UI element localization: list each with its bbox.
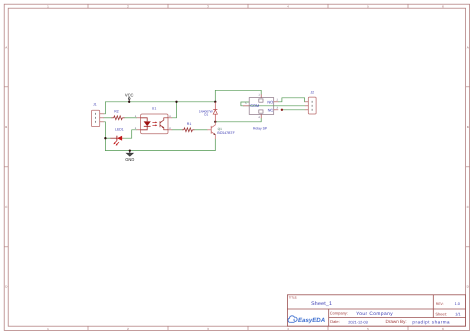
wire R1 to Q1 base [194, 129, 207, 131]
wire U1 pin3 to R1 [172, 129, 182, 131]
connector J1 [92, 103, 104, 127]
diode LED1 [110, 136, 123, 146]
junction relay NC wire end [281, 109, 283, 111]
title block [287, 295, 465, 326]
diode D1 [213, 102, 217, 122]
relay K1 Relay SP [243, 94, 278, 131]
relay pin numbers 1 4 5 2 3 [245, 94, 279, 119]
svg-text:B: B [5, 125, 7, 129]
svg-text:NO: NO [267, 99, 273, 104]
svg-text:2021-12-03: 2021-12-03 [348, 321, 367, 325]
resistor R1 [182, 128, 194, 132]
svg-text:A: A [467, 46, 469, 50]
wire relay NO to J2 pin1 [278, 98, 305, 102]
svg-text:J1: J1 [93, 103, 97, 107]
svg-text:TITLE:: TITLE: [289, 296, 298, 300]
wire VCC rail over top to relay coil pin1 [215, 90, 261, 102]
wire U1 pin4 to VCC rail [172, 102, 176, 118]
wire LED1 anode to U1 pin2 [123, 130, 136, 138]
svg-text:GND: GND [125, 157, 134, 162]
svg-text:Date:: Date: [330, 319, 340, 324]
svg-text:VCC: VCC [125, 93, 134, 98]
ground GND [125, 151, 134, 163]
J2 pins 1 2 3 [305, 102, 308, 110]
U1 pins 1 2 4 3 [137, 118, 173, 130]
svg-text:B: B [467, 125, 469, 129]
J2 pin numbers 1 2 3 [311, 101, 313, 111]
svg-text:Drawn By:: Drawn By: [386, 319, 407, 324]
svg-text:A: A [5, 46, 7, 50]
U1 coupling arrows [152, 122, 157, 127]
svg-text:Company:: Company: [330, 311, 348, 316]
junction LED1 net at J1 pin3 column [104, 137, 106, 139]
EasyEDA logo [288, 316, 325, 324]
svg-text:Your Company: Your Company [356, 311, 393, 317]
wire VCC rail [105, 101, 215, 103]
svg-text:NC: NC [268, 107, 274, 112]
svg-text:1.0: 1.0 [455, 302, 460, 306]
wire relay COM to J2 pin2 [243, 105, 305, 107]
junction VCC flag on VCC rail [128, 101, 130, 103]
resistor R2 [112, 116, 125, 120]
wire J1 pin3 down to LED1 net [104, 122, 106, 151]
svg-text:U1: U1 [152, 106, 157, 110]
U1 pin numbers 1 2 4 3 [135, 115, 171, 130]
wire J1 pin1 to VCC rail [104, 102, 106, 114]
wire relay NC to J2 pin3 [282, 109, 305, 111]
U1 internal LED [141, 118, 148, 130]
svg-text:pradipt sharma: pradipt sharma [412, 320, 450, 325]
junction U1 pin4 on VCC rail [175, 101, 177, 103]
wire GND bottom rail to Q1 emitter [105, 139, 215, 151]
svg-text:D1: D1 [204, 113, 208, 117]
wire relay COM hook stub [241, 102, 249, 106]
optocoupler U1 [135, 106, 172, 133]
junction GND symbol on bottom rail [129, 149, 131, 151]
svg-text:EasyEDA: EasyEDA [298, 317, 325, 324]
J1 pin numbers 1 2 3 [94, 113, 96, 123]
connector J2 [305, 91, 316, 114]
svg-text:Sheet_1: Sheet_1 [311, 301, 332, 307]
svg-text:COM: COM [250, 103, 259, 108]
U1 phototransistor [160, 118, 168, 130]
wire J1 pin2 to R2 [104, 117, 112, 119]
svg-text:Sheet:: Sheet: [435, 311, 447, 316]
transistor Q1 [207, 122, 215, 139]
svg-text:R1: R1 [187, 122, 192, 126]
svg-text:J2: J2 [310, 91, 314, 95]
relay coil loops [259, 99, 263, 102]
junction D1 cathode Q1 collector [214, 121, 216, 123]
svg-text:1/1: 1/1 [455, 311, 461, 316]
wire node to LED1 cathode [105, 137, 110, 139]
svg-text:BC547BTF: BC547BTF [217, 131, 234, 135]
junction D1 anode on VCC rail [214, 101, 216, 103]
svg-text:LED1: LED1 [115, 127, 124, 131]
relay pin names COM NO NC [250, 99, 273, 112]
power flag VCC [125, 93, 134, 102]
wire R2 to U1 pin1 [125, 117, 137, 119]
wire Q1 collector node to relay coil pin4 [215, 118, 261, 122]
J1 pins 1 2 3 [100, 114, 104, 122]
relay pins 1 4 5 2 3 [243, 94, 278, 118]
svg-text:REV:: REV: [436, 302, 444, 306]
svg-text:Relay SP: Relay SP [253, 127, 268, 131]
svg-text:R2: R2 [114, 110, 119, 114]
